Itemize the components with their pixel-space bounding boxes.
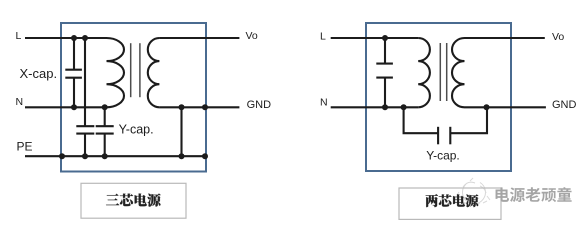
junction N / X-cap (71, 104, 77, 110)
wire Vo line (right) (465, 37, 545, 39)
junction L / X-cap (right circuit) (382, 35, 388, 41)
junction PE / Y-cap right (102, 153, 108, 159)
wire L to Y-cap left (crosses N) (84, 38, 86, 126)
wire L line (left) (25, 37, 107, 39)
wire N line (left) (25, 106, 107, 108)
junction N / X-cap (right circuit) (382, 104, 388, 110)
capacitor Y-cap left (76, 126, 94, 156)
junction L / X-cap (71, 35, 77, 41)
junction GND / Y-cap loop / T2 (484, 104, 490, 110)
wire Vo line (left) (159, 37, 239, 39)
T1 right winding (148, 38, 160, 107)
wire L line (right) (331, 37, 419, 39)
wire N line (right) (331, 106, 419, 108)
junction N / Y-cap loop / T2 (401, 104, 407, 110)
junction PE / enclosure right (202, 153, 208, 159)
caption box 三芯电源 (81, 183, 186, 218)
capacitor X-cap (left) (65, 38, 82, 107)
svg-text:Vo: Vo (246, 30, 258, 42)
svg-text:L: L (320, 30, 326, 42)
enclosure box (left, chassis) (61, 23, 206, 172)
junction L / Y-cap wire (82, 35, 88, 41)
junction PE / GND wire (179, 153, 185, 159)
svg-text:X-cap.: X-cap. (20, 66, 58, 81)
svg-text:GND: GND (552, 99, 577, 111)
capacitor Y-cap right (96, 107, 114, 156)
common-mode choke T2 left winding (418, 38, 430, 107)
T2 core (440, 43, 446, 101)
watermark logo scribble (457, 178, 490, 205)
svg-text:GND: GND (247, 99, 272, 111)
T1 core (131, 43, 140, 97)
common-mode choke T1 left winding (107, 38, 125, 107)
svg-text:Y-cap.: Y-cap. (426, 148, 460, 162)
svg-text:N: N (16, 96, 24, 108)
svg-text:L: L (16, 30, 22, 42)
junction PE / Y-cap left (82, 153, 88, 159)
svg-text:PE: PE (17, 140, 33, 154)
T2 right winding (452, 38, 465, 107)
svg-text:Y-cap.: Y-cap. (119, 123, 154, 137)
watermark text 电源老顽童 (496, 187, 510, 201)
wire GND line (left) (159, 106, 239, 108)
svg-text:N: N (320, 96, 328, 108)
junction GND / enclosure (202, 104, 208, 110)
caption box 两芯电源 (399, 188, 501, 219)
wire PE line (25, 155, 205, 157)
junction GND / PE wire (179, 104, 185, 110)
junction PE / enclosure (59, 153, 65, 159)
enclosure box (right, chassis) (366, 23, 511, 171)
capacitor X-cap (right, unlabeled) (376, 38, 393, 107)
wire GND to PE (180, 107, 182, 156)
wire GND line (right) (465, 106, 546, 108)
svg-text:Vo: Vo (552, 31, 564, 43)
capacitor Y-cap (right circuit) with loop wiring (404, 107, 487, 144)
junction N / Y-cap right / T1 (102, 104, 108, 110)
